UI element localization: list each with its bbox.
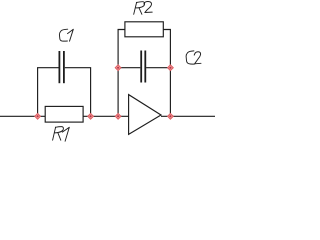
- label C2: [186, 51, 201, 64]
- label R2: [134, 2, 153, 15]
- node junction R1-C1 left: [35, 113, 41, 119]
- capacitor C1: [59, 51, 64, 83]
- wire between R1 and op-amp input: [83, 115, 129, 117]
- wire C1 right branch: [65, 68, 91, 117]
- node C2 left: [115, 65, 121, 71]
- node output: [168, 113, 174, 119]
- wire feedback left branch: [118, 30, 125, 117]
- node op-amp input: [115, 113, 121, 119]
- label R1: [53, 127, 70, 142]
- op-amp U1: [129, 95, 161, 135]
- wire C2 left lead: [118, 67, 140, 69]
- node junction R1-C1 right: [88, 113, 94, 119]
- label C1: [59, 29, 73, 41]
- wire feedback right branch: [163, 30, 170, 117]
- node C2 right: [168, 65, 174, 71]
- wire output net: [161, 115, 215, 117]
- wire C1 left branch: [38, 68, 59, 117]
- resistor R1: [45, 106, 83, 122]
- resistor R2: [125, 22, 163, 37]
- wire C2 right lead: [146, 67, 170, 69]
- capacitor C2: [141, 51, 145, 83]
- wire input net left segment: [0, 115, 45, 117]
